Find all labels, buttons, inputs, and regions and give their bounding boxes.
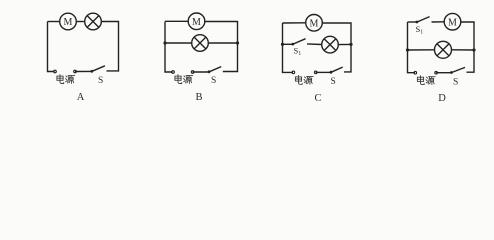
wire: circuit C left vertical [283,23,294,72]
node: D power source left terminal [414,71,417,74]
node: B power source right terminal [191,71,194,74]
wire: B top left [165,20,188,22]
wire: D middle branch right [452,49,475,51]
motor M (B) [188,13,205,30]
wire: C middle from blade to lamp [307,43,322,46]
motor M (D) [444,13,461,30]
wire: C top left [283,22,306,24]
power source label 电源 (C) [295,75,313,84]
node: C middle left junction [281,43,284,46]
node: D middle left junction [406,48,409,51]
switch S (A) blade [92,66,105,72]
wire: D middle branch left [408,49,435,51]
wire: circuit D left vertical [408,22,416,73]
svg-text:S1: S1 [416,24,424,36]
node: C middle right junction [349,43,352,46]
wire: C middle to switch pivot [283,43,293,45]
wire: A top left [48,21,60,23]
node: B right junction [236,41,239,44]
node: B power source left terminal [172,71,175,74]
lamp (B) [192,35,209,52]
wire: B bottom to switch pivot [193,71,209,73]
node: A power source right terminal [74,70,77,73]
switch S1 (C) pivot [291,43,294,46]
switch S (D) pivot [450,71,453,74]
power source label 电源 (A) [57,75,75,84]
wire: B middle branch right [208,42,237,44]
svg-text:B: B [195,92,202,103]
svg-text:S1: S1 [294,46,302,58]
wire: D bottom right stub and right vertical [461,22,474,72]
node: D power source right terminal [435,71,438,74]
wire: B bottom right stub and right vertical [205,22,238,72]
wire: B middle branch left [165,42,192,44]
switch S (A) pivot [90,70,93,73]
wire: D top from blade to motor [432,21,445,23]
svg-text:M: M [64,17,73,28]
wire: A bottom right stub and right vertical [101,22,118,71]
switch S (C) pivot [330,71,333,74]
svg-text:M: M [448,17,457,28]
svg-text:S: S [98,76,103,86]
power source label 电源 (D) [417,76,435,85]
node: C power source right terminal [314,71,317,74]
switch S (D) blade [452,67,465,72]
wire: C middle branch right [338,43,351,45]
switch S (C) blade [331,67,343,72]
node: B left junction [163,41,166,44]
wire: D bottom to switch pivot [436,72,451,74]
svg-text:A: A [77,92,85,103]
node: D middle right junction [472,48,475,51]
wire: circuit B left vertical [165,22,173,73]
svg-text:M: M [192,17,201,28]
switch S1 (D) pivot [416,21,419,24]
svg-text:C: C [314,93,321,104]
svg-text:S: S [211,76,216,86]
switch S1 (D) blade [417,17,430,22]
lamp (D) [435,41,452,58]
power source label 电源 (B) [175,75,193,84]
wire: D top left [408,21,417,23]
node: A power source left terminal [54,70,57,73]
motor M (A) [60,13,77,30]
wire: A bottom from terminal to switch pivot [75,70,92,72]
svg-text:S: S [331,77,336,87]
svg-text:D: D [438,93,446,104]
wire: A between motor and lamp [76,21,84,23]
svg-text:M: M [310,19,319,30]
wire: C bottom right stub and right vertical [322,23,351,72]
lamp (A) [85,13,102,30]
svg-text:S: S [453,78,458,88]
wire: C bottom to switch pivot [316,71,331,73]
switch S (B) blade [209,67,221,72]
switch S (B) pivot [208,70,211,73]
wire: circuit A left vertical [48,22,55,72]
motor M (C) [306,14,323,31]
node: C power source left terminal [292,71,295,74]
switch S1 (C) blade [293,39,306,44]
lamp (C) [322,36,339,53]
